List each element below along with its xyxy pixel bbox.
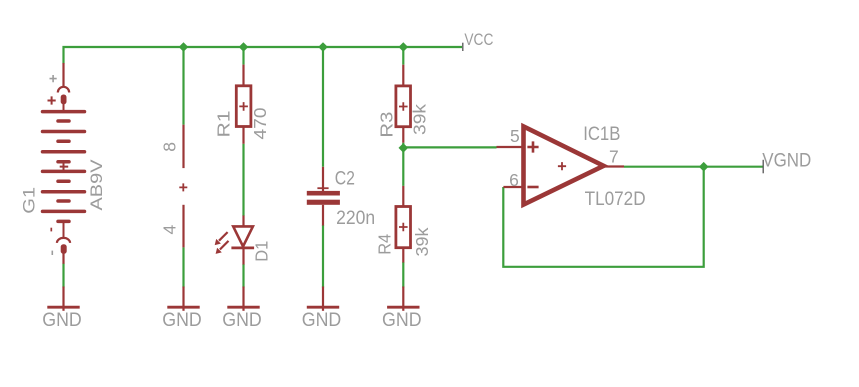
svg-text:IC1B: IC1B <box>583 123 620 145</box>
svg-text:220n: 220n <box>336 207 375 229</box>
svg-text:C2: C2 <box>335 167 355 189</box>
svg-text:AB9V: AB9V <box>88 160 106 211</box>
svg-text:GND: GND <box>42 309 82 331</box>
svg-text:39k: 39k <box>410 104 430 135</box>
svg-text:4: 4 <box>160 225 180 235</box>
svg-text:GND: GND <box>222 309 262 331</box>
svg-text:R3: R3 <box>377 112 397 138</box>
svg-text:TL072D: TL072D <box>585 188 646 210</box>
svg-text:R4: R4 <box>375 234 395 255</box>
svg-text:G1: G1 <box>21 187 39 214</box>
svg-text:5: 5 <box>510 126 520 146</box>
svg-text:GND: GND <box>302 309 342 331</box>
svg-text:VGND: VGND <box>762 149 811 171</box>
svg-text:7: 7 <box>609 147 619 167</box>
svg-text:GND: GND <box>382 309 422 331</box>
svg-text:39k: 39k <box>412 227 432 256</box>
svg-text:VCC: VCC <box>464 30 493 49</box>
svg-text:GND: GND <box>162 309 202 331</box>
svg-text:8: 8 <box>160 142 180 152</box>
svg-text:6: 6 <box>509 170 519 190</box>
svg-text:R1: R1 <box>214 111 234 138</box>
svg-text:D1: D1 <box>252 241 272 262</box>
svg-text:470: 470 <box>250 107 270 139</box>
